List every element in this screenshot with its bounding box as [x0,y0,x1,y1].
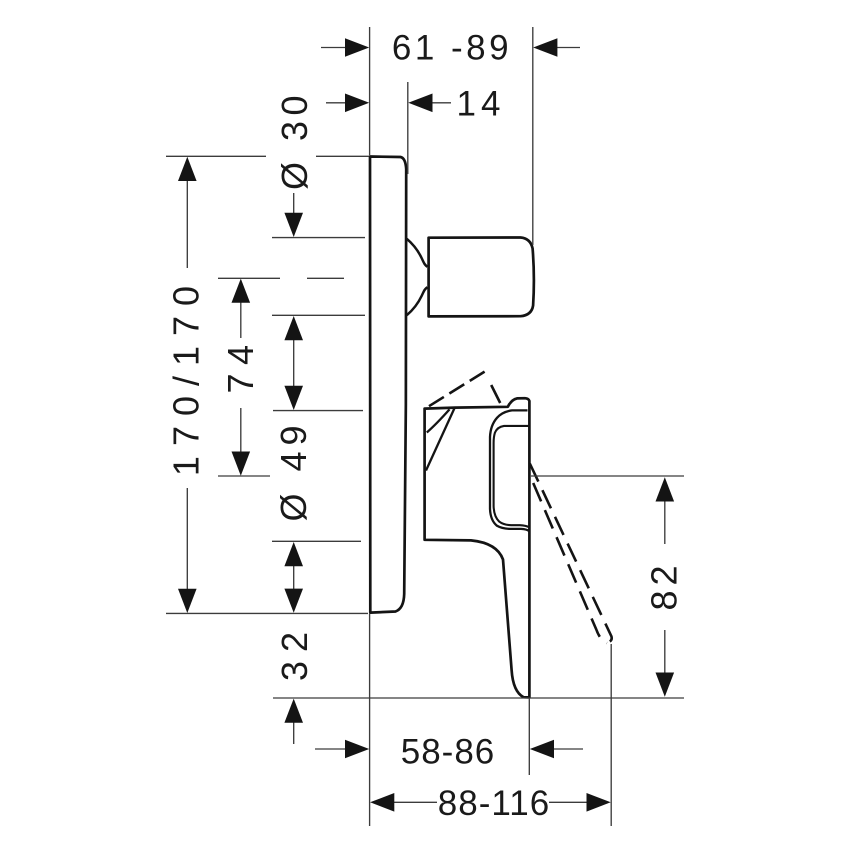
centerline knob axis seg1 [218,277,280,279]
ref line y698 (82 bottom / lever tip) [273,697,684,699]
extension line lever front bottom [528,699,530,775]
lever horn inner curve inner [494,426,530,528]
svg-text:74: 74 [220,336,261,393]
arrowhead 88-116 left [370,793,394,812]
88-116 line right [549,801,587,803]
knob neck upper curve [407,239,428,267]
61-89 left arrow tail [321,47,346,49]
14 right arrow tail [431,102,451,104]
lever handle L1 outline (base + grip) [425,398,530,697]
lever horn inner curve outer [490,410,529,531]
Ø30 arrow tail above knob-top line [293,193,295,215]
170/170 line upper [186,180,188,268]
arrowhead 82 bottom [656,673,675,697]
escutcheon plate P1 (side view) [370,157,406,613]
88-116 line left [393,801,437,803]
knob neck lower curve [407,287,428,315]
arrowhead 74 top [232,279,251,303]
82 line upper [664,501,666,544]
extension line dashed-tip bottom [610,644,612,826]
74 line lower [240,408,242,453]
58-86 right arrow tail [553,748,583,750]
ref line y410 lever base top [273,410,363,412]
tick line y476 for 74 [218,475,270,477]
ref line y613 plate bottom [166,612,368,614]
arrowhead up (tip y316) [284,316,303,340]
arrowhead 14 right [408,94,432,113]
extension line plate-right (14) [407,82,409,174]
centerline knob axis seg2 [307,277,344,279]
connector line between double arrows y315-410 [293,339,295,387]
32 bottom arrow tail [293,722,295,744]
lever base diagonal detail [426,408,455,470]
arrowhead 58-86 left [345,740,369,759]
svg-text:61 -89: 61 -89 [392,29,512,68]
dashed lever alt position: top back edge [429,372,485,407]
arrowhead 58-86 right [530,740,554,759]
lever base fillet arc detail [427,409,450,432]
ref line y156 left of Ø30 text [166,155,266,157]
ref line y476 right (82 top) [531,475,684,477]
arrowhead 61-89 left [345,38,369,57]
svg-text:14: 14 [457,84,506,123]
arrowhead up 32 bottom (tip y698.6) [284,699,303,723]
74 line upper [240,301,242,338]
170/170 line lower [186,488,188,590]
svg-text:Ø 30: Ø 30 [274,90,315,190]
61-89 right arrow tail [556,47,580,49]
arrowhead Ø30 down (tip y237) [284,213,303,237]
connector line between double arrows y541-613 [293,565,295,589]
arrowhead 74 bottom [232,452,251,476]
arrowhead 170/170 bottom [178,589,197,613]
arrowhead 170/170 top [178,157,197,181]
arrowhead down (tip y410) [284,386,303,410]
ref line y541 lever base bottom [272,540,361,542]
14 left arrow tail [326,102,348,104]
arrowhead 61-89 right [533,38,557,57]
arrowhead up (tip y542) [284,542,303,566]
arrowhead 14 left [345,94,369,113]
svg-text:32: 32 [274,623,315,681]
arrowhead down (tip y612.8) [284,589,303,613]
svg-text:Ø 49: Ø 49 [273,419,314,521]
arrowhead 82 top [656,477,675,501]
ref line y237 knob top [272,237,365,239]
58-86 left arrow tail [315,748,346,750]
ref line y315 knob bottom [272,314,365,316]
svg-text:82: 82 [644,560,685,610]
svg-text:58-86: 58-86 [401,733,496,772]
ref line y156 right of Ø30 text [316,155,369,157]
knob handle H1 body [429,238,534,317]
extension line plate-left bottom [369,614,371,826]
svg-text:88-116: 88-116 [438,784,550,823]
extension line knob front top [532,27,534,245]
dashed lever alt position: front edge to tip [491,385,500,403]
extension line plate-left top [369,27,371,155]
arrowhead 88-116 right [587,793,611,812]
svg-text:170/170: 170/170 [166,276,207,476]
dashed lever alt position: back edge to tip [533,483,607,643]
82 line lower [664,630,666,673]
